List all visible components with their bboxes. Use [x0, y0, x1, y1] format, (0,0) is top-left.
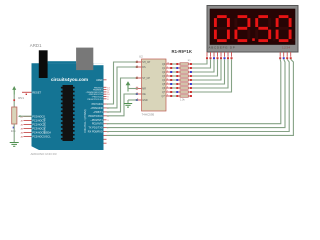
display decimal point lit: [252, 38, 255, 41]
resistor R6 body: [180, 83, 188, 85]
resistor R9 body: [180, 95, 188, 97]
U2 pin 11 marker: [136, 61, 138, 63]
display pin digit3 stub: [286, 52, 288, 57]
svg-text:ABCDEFG DP: ABCDEFG DP: [209, 46, 236, 50]
display digit 2 shows 2: [236, 17, 249, 41]
resistor R8 marker right: [190, 91, 192, 93]
resistor R2 body: [180, 67, 188, 69]
wire U2 Q7 to resistor: [170, 91, 177, 93]
U2 pin 13 OE stub: [138, 93, 142, 95]
resistor R6 marker left: [176, 83, 178, 85]
svg-text:TX PD1/TXD: TX PD1/TXD: [88, 127, 103, 130]
display pin B marker: [210, 57, 212, 59]
display pin F marker: [224, 57, 226, 59]
resistor R7 right stub: [188, 87, 192, 89]
power jack grey block: [76, 48, 93, 71]
svg-text:PC3/ADC3: PC3/ADC3: [32, 127, 45, 131]
display window: [210, 9, 295, 45]
resistor R4 left stub: [177, 75, 181, 77]
resistor R1 body: [180, 63, 188, 65]
resistor R3 marker right: [190, 71, 192, 73]
resistor R9 marker right: [190, 95, 192, 97]
svg-text:9: 9: [167, 94, 168, 96]
node marker U2 Q0: [170, 63, 172, 65]
ground symbol U2 OE: [127, 100, 129, 104]
U2 pin 5 Q5 stub: [166, 83, 170, 85]
resistor R1 marker right: [190, 63, 192, 65]
wire U2 Q4 to resistor: [170, 79, 177, 81]
resistor R8 body: [180, 91, 188, 93]
svg-text:ST_CP: ST_CP: [142, 77, 150, 80]
node marker RV1 bottom: [13, 127, 15, 129]
U2 pin 6 Q6 stub: [166, 87, 170, 89]
resistor R6 marker right: [190, 83, 192, 85]
display frame: [207, 6, 298, 53]
wire U2 Q0 to resistor: [170, 63, 177, 65]
pin 2 stub: [104, 123, 107, 125]
potentiometer RV1 body: [12, 107, 17, 124]
U2 pin 8 marker: [136, 99, 138, 101]
wire arduino to U2 control 3: [107, 78, 138, 112]
resistor R1 left stub: [177, 63, 181, 65]
svg-text:OE: OE: [142, 93, 146, 96]
resistor R8 marker left: [176, 91, 178, 93]
wire digit2 to arduino: [107, 59, 286, 127]
resistor R9 right stub: [188, 95, 192, 97]
wire segment C to R network: [192, 59, 214, 72]
svg-text:A2: A2: [21, 124, 24, 127]
svg-text:GND: GND: [142, 99, 148, 102]
svg-text:ARD1: ARD1: [30, 43, 42, 48]
svg-text:RX PD0/RXD: RX PD0/RXD: [88, 131, 103, 134]
pin x stub: [104, 134, 107, 136]
U2 pin 7 Q7 stub: [166, 91, 170, 93]
display pin C stub: [213, 52, 215, 57]
pin 9 stub: [104, 96, 107, 98]
pin RESET marker: [26, 94, 27, 95]
resistor R9 left stub: [177, 95, 181, 97]
svg-text:AREF: AREF: [96, 79, 103, 82]
svg-text:PC2/ADC2: PC2/ADC2: [32, 123, 45, 127]
pin 8 stub: [104, 98, 107, 100]
display digit 3 shows 5: [257, 17, 270, 41]
pin 1 stub: [104, 127, 107, 129]
wire segment F to R network: [192, 59, 225, 84]
display pin digit4 marker: [290, 57, 292, 59]
display pin E stub: [220, 52, 222, 57]
node marker U2 Q6: [170, 87, 172, 89]
svg-text:R1: R1: [188, 60, 192, 62]
svg-text:A1: A1: [21, 120, 24, 123]
wire power to RV1: [13, 95, 15, 108]
svg-text:15: 15: [167, 62, 169, 64]
wire U2 Q6 to resistor: [170, 87, 177, 89]
display pin C marker: [213, 57, 215, 59]
pin 11 stub: [104, 91, 107, 93]
arduino board ARD1 body: [32, 63, 104, 150]
USB connector: [39, 50, 48, 78]
resistor R3 left stub: [177, 71, 181, 73]
resistor R5 marker left: [176, 79, 178, 81]
pin 10 stub: [104, 93, 107, 95]
node marker U2 Q4: [170, 79, 172, 81]
svg-text:8: 8: [107, 99, 109, 101]
pin A2 stub: [24, 124, 32, 126]
microcontroller IC ATmega328: [63, 85, 74, 141]
U2 pin 12 ST_CP stub: [138, 77, 142, 79]
wire segment B to R network: [192, 59, 211, 68]
pin x stub: [104, 142, 107, 144]
resistor R4 right stub: [188, 75, 192, 77]
node marker U2 Q5: [170, 83, 172, 85]
svg-text:3: 3: [107, 120, 109, 122]
svg-text:PB0/ICP1/CLKO: PB0/ICP1/CLKO: [87, 99, 103, 101]
pin A3 stub: [24, 128, 32, 130]
pin 5 stub: [104, 111, 107, 113]
wire segment A to R network: [192, 59, 207, 64]
display pin digit3 marker: [286, 57, 288, 59]
board header strip: [48, 61, 77, 63]
display pin G marker: [227, 57, 229, 59]
resistor R3 right stub: [188, 71, 192, 73]
resistor R7 marker right: [190, 87, 192, 89]
U2 pin 10 MR stub: [138, 88, 142, 90]
resistor R6 left stub: [177, 83, 181, 85]
pin 12 stub: [104, 89, 107, 91]
display pin digit1 stub: [279, 52, 281, 57]
wire U2 Q2 to resistor: [170, 71, 177, 73]
node marker U2 Q1: [170, 67, 172, 69]
svg-text:PD4/T0/XCK: PD4/T0/XCK: [88, 115, 103, 118]
display decimal ghosts: [231, 38, 295, 40]
pin x stub: [104, 138, 107, 140]
svg-text:10k: 10k: [11, 129, 16, 133]
U2 pin 4 Q4 stub: [166, 79, 170, 81]
resistor R8 left stub: [177, 91, 181, 93]
U2 pin 11 SH_CP stub: [138, 61, 142, 63]
svg-text:RESET: RESET: [32, 91, 41, 95]
pin A4 stub: [24, 132, 32, 134]
resistor R7 marker left: [176, 87, 178, 89]
IC pin ticks: [61, 87, 75, 140]
shift register U2 body: [142, 59, 167, 111]
svg-text:3: 3: [167, 74, 168, 76]
svg-text:1234: 1234: [282, 46, 290, 50]
resistor R9 marker left: [176, 95, 178, 97]
svg-text:RV1: RV1: [18, 96, 24, 100]
wire power to U2 MR: [128, 88, 138, 90]
pin A1 stub: [24, 120, 32, 122]
svg-text:PD2/INT0: PD2/INT0: [92, 123, 104, 126]
pin RESET stub: [22, 91, 32, 93]
pin 3 stub: [104, 119, 107, 121]
resistor R1 right stub: [188, 63, 192, 65]
svg-text:U2: U2: [139, 55, 143, 59]
U2 pin 14 DS stub: [138, 66, 142, 68]
svg-text:PC1/ADC1: PC1/ADC1: [32, 119, 45, 123]
resistor R7 left stub: [177, 87, 181, 89]
wire U2 Q3 to resistor: [170, 75, 177, 77]
wire ground to U2 OE: [128, 99, 138, 101]
svg-text:2: 2: [167, 70, 168, 72]
svg-text:Q7': Q7': [162, 95, 166, 98]
wire U2 Q7' to resistor: [170, 95, 177, 97]
pin A0 stub: [24, 116, 32, 118]
resistor R2 marker left: [176, 67, 178, 69]
display pin D stub: [217, 52, 219, 57]
svg-text:7: 7: [167, 90, 168, 92]
U2 pin 15 Q0 stub: [166, 63, 170, 65]
svg-text:ARDUINO UNO R3: ARDUINO UNO R3: [31, 152, 57, 156]
RV1 wiper arrow: [20, 115, 32, 117]
svg-text:A5: A5: [21, 136, 24, 139]
display pin D marker: [217, 57, 219, 59]
resistor R4 body: [180, 75, 188, 77]
U2 pin 8 GND stub: [138, 99, 142, 101]
node marker U2 Q3: [170, 75, 172, 77]
resistor R1 marker left: [176, 63, 178, 65]
wire RV1 to ground: [13, 124, 15, 143]
wire digit1 to arduino: [107, 59, 281, 123]
resistor R5 left stub: [177, 79, 181, 81]
node marker U2 Q7': [170, 95, 172, 97]
svg-text:~PD6/AIN0: ~PD6/AIN0: [90, 107, 103, 110]
pin 4 stub: [104, 115, 107, 117]
display pin DP marker: [231, 57, 233, 59]
power symbol U2 MR: [127, 89, 129, 92]
display pin DP stub: [231, 52, 233, 57]
U2 pin 2 Q2 stub: [166, 71, 170, 73]
display digit 4 shows 0: [277, 17, 290, 41]
display pin B stub: [210, 52, 212, 57]
pin A5 stub: [24, 136, 32, 138]
svg-text:PD7/AIN1: PD7/AIN1: [92, 103, 104, 106]
display pin A marker: [206, 57, 208, 59]
svg-text:6: 6: [167, 86, 168, 88]
resistor R5 marker right: [190, 79, 192, 81]
wire U2 Q1 to resistor: [170, 67, 177, 69]
svg-text:1.0k: 1.0k: [180, 99, 185, 102]
svg-text:~PD5/T1: ~PD5/T1: [93, 111, 104, 114]
svg-text:A4: A4: [21, 132, 24, 135]
pin AREF stub: [104, 79, 107, 81]
svg-text:R1-R9=1K: R1-R9=1K: [172, 49, 193, 54]
pin 6 stub: [104, 107, 107, 109]
wire arduino to U2 control 1: [107, 62, 138, 104]
U2 pin 10 marker: [136, 88, 138, 90]
pin 7 stub: [104, 103, 107, 105]
wire arduino to U2 control 4: [107, 94, 138, 116]
svg-text:DS: DS: [142, 66, 146, 69]
board top-right notch: [93, 63, 103, 65]
display pin A stub: [206, 52, 208, 57]
resistor R3 marker left: [176, 71, 178, 73]
svg-text:MR: MR: [142, 88, 146, 91]
ground symbol RV1: [10, 142, 19, 144]
resistor R2 left stub: [177, 67, 181, 69]
resistor R5 right stub: [188, 79, 192, 81]
node marker RV1 top: [13, 99, 15, 101]
resistor R5 body: [180, 79, 188, 81]
svg-text:PC4/ADC4/SDA: PC4/ADC4/SDA: [32, 131, 51, 135]
svg-text:A3: A3: [21, 128, 24, 131]
resistor R2 marker right: [190, 67, 192, 69]
resistor R4 marker right: [190, 75, 192, 77]
resistor R7 body: [180, 87, 188, 89]
wire segment E to R network: [192, 59, 221, 80]
wire U2 Q5 to resistor: [170, 83, 177, 85]
pin 0 stub: [104, 131, 107, 133]
resistor R6 right stub: [188, 83, 192, 85]
wire segment D to R network: [192, 59, 218, 76]
resistor R8 right stub: [188, 91, 192, 93]
svg-text:4: 4: [167, 78, 168, 80]
svg-text:~PD3/INT1: ~PD3/INT1: [90, 119, 103, 122]
U2 pin 1 Q1 stub: [166, 67, 170, 69]
svg-text:SH_CP: SH_CP: [142, 61, 150, 64]
display pin digit4 stub: [290, 52, 292, 57]
power symbol +5V: [13, 89, 15, 95]
display pin digit1 marker: [279, 57, 281, 59]
svg-text:DIGITAL I (PWM): DIGITAL I (PWM): [83, 109, 87, 132]
wire segment DP to R network: [192, 59, 232, 92]
node marker U2 Q2: [170, 71, 172, 73]
wire segment G to R network: [192, 59, 228, 88]
svg-text:circuits4you.com: circuits4you.com: [51, 77, 88, 82]
wire digit3 to arduino: [107, 59, 290, 131]
svg-text:1: 1: [167, 66, 168, 68]
svg-text:74HC595: 74HC595: [142, 112, 155, 116]
display pin digit2 stub: [283, 52, 285, 57]
U2 pin 9 Q7' stub: [166, 95, 170, 97]
display pin E marker: [220, 57, 222, 59]
resistor R2 right stub: [188, 67, 192, 69]
svg-text:PC0/ADC0: PC0/ADC0: [32, 115, 45, 119]
U2 pin 13 marker: [136, 93, 138, 95]
wire arduino to U2 control 2: [107, 67, 138, 108]
display digit 1 shows 0: [215, 17, 228, 41]
U2 pin 3 Q3 stub: [166, 75, 170, 77]
wire digit4 to arduino: [107, 59, 294, 135]
node marker U2 Q7: [170, 91, 172, 93]
svg-text:5: 5: [167, 82, 168, 84]
display pin G stub: [227, 52, 229, 57]
resistor R4 marker left: [176, 75, 178, 77]
U2 pin 12 marker: [136, 77, 138, 79]
resistor R3 body: [180, 71, 188, 73]
display pin F stub: [224, 52, 226, 57]
U2 pin 14 marker: [136, 66, 138, 68]
display pin digit2 marker: [283, 57, 285, 59]
pin 13 stub: [104, 86, 107, 88]
svg-text:PC5/ADC5/SCL: PC5/ADC5/SCL: [32, 135, 51, 139]
